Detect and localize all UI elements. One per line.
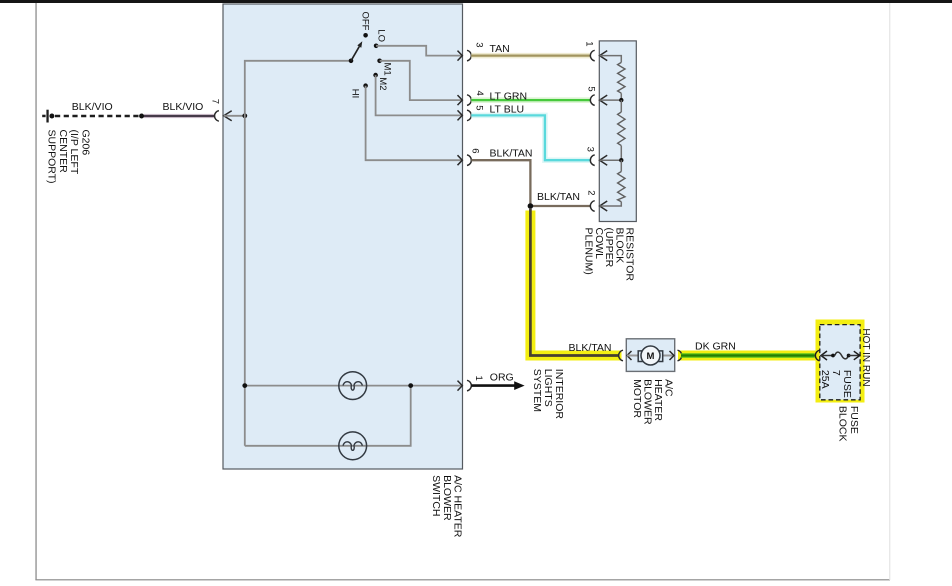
- wire BLK/VIO solid segment: [144, 115, 215, 117]
- resistor internal wire to node 3: [600, 146, 622, 161]
- RESISTOR BLOCK label: [583, 228, 636, 282]
- svg-text:BLK/VIO: BLK/VIO: [72, 101, 113, 113]
- svg-text:DK GRN: DK GRN: [695, 340, 736, 352]
- svg-text:TAN: TAN: [490, 43, 510, 55]
- wire DK GRN halo: [681, 353, 815, 358]
- wire BLK/TAN down to motor (highlighted): [530, 209, 619, 356]
- lamp wire row 2: [245, 386, 411, 446]
- wire LO contact to pin 3: [376, 46, 462, 56]
- resistor block pin 1 arrow: [600, 51, 608, 61]
- wire BLK/TAN to resistor pin 2: [530, 205, 590, 207]
- HI contact dot: [363, 83, 368, 88]
- switch pin 6 arc: [467, 155, 471, 166]
- resistor pin label 3: [585, 147, 596, 152]
- resistor block pin 1 arc: [590, 50, 594, 61]
- resistor pin label 2: [586, 190, 597, 195]
- resistor internal wire node5 to R2: [620, 100, 622, 112]
- frame bottom line: [35, 579, 890, 580]
- svg-text:HI: HI: [350, 89, 361, 99]
- HOT IN RUN label: [860, 328, 871, 386]
- svg-text:HOT IN RUN: HOT IN RUN: [860, 328, 871, 386]
- label M2: [377, 77, 388, 90]
- motor internal stub left: [627, 355, 638, 357]
- switch pin 3 arrow: [458, 51, 463, 61]
- resistor block pin 2 arc: [590, 201, 594, 212]
- wire ORG: [471, 384, 515, 387]
- label OFF: [360, 12, 371, 31]
- FUSE BLOCK label: [837, 406, 861, 442]
- junction dot lamp outputs: [408, 383, 413, 388]
- svg-text:INTERIOR: INTERIOR: [553, 369, 565, 420]
- svg-text:LT GRN: LT GRN: [490, 90, 528, 102]
- label HI: [350, 89, 361, 99]
- wire M1 contact to pin 4: [380, 61, 462, 100]
- svg-text:M2: M2: [377, 77, 388, 90]
- pin label 6: [470, 148, 481, 153]
- svg-text:OFF: OFF: [360, 12, 371, 31]
- resistor node dot 3: [619, 158, 623, 162]
- resistor internal wire to pin 2: [600, 202, 622, 206]
- G206 ground splice symbol: [42, 110, 54, 123]
- wire BLK/TAN from pin 6: [471, 160, 530, 204]
- svg-text:SUPPORT): SUPPORT): [45, 130, 57, 184]
- motor connector arc right: [678, 350, 682, 361]
- wire M2 contact to pin 5: [376, 75, 462, 115]
- connector arc at switch pin 7: [215, 111, 219, 122]
- switch pin 5 arc: [467, 110, 471, 121]
- pin 7 arrow: [224, 111, 232, 121]
- A/C HEATER BLOWER SWITCH label: [430, 475, 464, 538]
- junction dot bus/lamp1: [242, 383, 247, 388]
- svg-text:BLK/TAN: BLK/TAN: [490, 147, 533, 159]
- wire BLK/VIO dashed segment from G206: [55, 115, 139, 117]
- svg-text:SWITCH: SWITCH: [430, 475, 442, 516]
- svg-text:3: 3: [473, 42, 484, 47]
- resistor R3 zigzag: [618, 172, 625, 202]
- switch pin 4 arc: [467, 95, 471, 106]
- pin label 1: [473, 376, 484, 381]
- switch pin 3 arc: [467, 50, 471, 61]
- frame left line: [35, 3, 36, 580]
- G206 (I/P LEFT CENTER SUPPORT) label: [45, 130, 91, 184]
- svg-text:G206: G206: [80, 130, 92, 156]
- wire DK GRN: [681, 354, 815, 356]
- switch pin 5 arrow: [458, 110, 463, 120]
- svg-text:CENTER: CENTER: [57, 130, 69, 174]
- svg-text:MOTOR: MOTOR: [631, 379, 643, 418]
- wire BLK/VIO solid segment halo: [144, 114, 215, 119]
- resistor pin label 5: [586, 86, 597, 91]
- top border bar: [0, 0, 952, 3]
- svg-text:PLENUM): PLENUM): [583, 228, 595, 275]
- resistor block pin 3 arc: [590, 155, 594, 166]
- svg-text:1: 1: [583, 41, 594, 46]
- resistor block body: [599, 41, 636, 222]
- svg-text:6: 6: [470, 148, 481, 153]
- BLK/TAN splice junction dot: [528, 203, 534, 209]
- wire LT BLU: [471, 115, 590, 160]
- INTERIOR LIGHTS SYSTEM label: [531, 369, 565, 420]
- switch pin 4 arrow: [458, 95, 463, 105]
- wire HI contact to pin 6: [366, 86, 462, 161]
- svg-text:M: M: [647, 351, 655, 362]
- resistor block pin 5 arc: [590, 95, 594, 106]
- ORG arrowhead: [514, 381, 524, 390]
- resistor internal wire node3 to R3: [620, 160, 622, 171]
- LO contact dot: [374, 44, 379, 49]
- OFF contact dot: [363, 33, 368, 38]
- wire TAN: [471, 54, 590, 56]
- M1 contact dot: [377, 59, 382, 64]
- wire TAN halo: [471, 53, 590, 59]
- svg-text:M1: M1: [381, 63, 392, 76]
- svg-text:5: 5: [473, 105, 484, 110]
- resistor R1 zigzag: [618, 62, 625, 93]
- bus junction dot: [242, 113, 247, 118]
- resistor block pin 5 arrow: [600, 95, 608, 105]
- fuse pin arrow left: [821, 351, 827, 360]
- wire LT BLU halo: [471, 115, 590, 160]
- motor internal stub right: [663, 355, 674, 357]
- motor block body: [626, 339, 674, 372]
- switch arm pivot dot: [349, 59, 354, 64]
- svg-text:25A: 25A: [819, 370, 831, 389]
- resistor node dot 5: [619, 98, 623, 102]
- fuse wire right: [849, 355, 860, 357]
- fuse block yellow highlight body: [816, 320, 865, 403]
- internal wire pin7 to bus: [224, 115, 246, 117]
- label M1: [381, 63, 392, 76]
- svg-text:ORG: ORG: [490, 372, 514, 384]
- svg-text:(I/P LEFT: (I/P LEFT: [68, 130, 80, 175]
- resistor internal wire to node 5: [600, 93, 622, 100]
- fuse element S-curve: [835, 352, 848, 359]
- pin label 4: [474, 91, 485, 96]
- svg-text:LT BLU: LT BLU: [490, 103, 525, 115]
- svg-text:5: 5: [586, 86, 597, 91]
- yellow highlight on DK GRN wire: [678, 351, 816, 361]
- resistor pin label 1: [583, 41, 594, 46]
- svg-text:LIGHTS: LIGHTS: [542, 369, 554, 407]
- illumination lamp 2: [339, 432, 367, 460]
- switch arm: [351, 47, 359, 61]
- yellow highlight on BLK/TAN wire: [530, 211, 621, 356]
- resistor R2 zigzag: [618, 112, 625, 146]
- switch pin 1 arc: [467, 380, 471, 391]
- splice junction dot on BLK/VIO: [139, 114, 144, 119]
- motor circle M: [641, 346, 660, 365]
- wire LT GRN: [471, 99, 590, 101]
- label LO: [375, 29, 386, 42]
- pin label 7: [210, 99, 221, 104]
- fuse pin arrow right: [854, 351, 860, 360]
- resistor internal wire pin1: [600, 56, 622, 63]
- lamp wire row 1: [245, 385, 462, 387]
- svg-text:BLK/TAN: BLK/TAN: [569, 342, 612, 354]
- switch block body (A/C heater blower switch): [223, 4, 463, 469]
- switch left bus wire: [245, 61, 351, 446]
- resistor block pin 2 arrow: [600, 201, 608, 211]
- motor pin arrow left: [627, 351, 632, 360]
- switch pin 6 arrow: [458, 155, 463, 165]
- switch arm arrowhead: [357, 41, 362, 47]
- illumination lamp 1: [339, 372, 367, 400]
- svg-text:LO: LO: [375, 29, 386, 42]
- svg-text:3: 3: [585, 147, 596, 152]
- motor pin arrow right: [670, 351, 675, 360]
- svg-text:BLK/VIO: BLK/VIO: [163, 101, 204, 113]
- svg-text:1: 1: [473, 376, 484, 381]
- svg-text:2: 2: [586, 190, 597, 195]
- resistor block pin 3 arrow: [600, 155, 608, 165]
- svg-text:7: 7: [210, 99, 221, 104]
- frame right line: [889, 3, 890, 580]
- switch pin 1 arrow: [458, 381, 463, 391]
- A/C HEATER BLOWER MOTOR label: [631, 379, 675, 425]
- FUSE 7 25A label: [819, 370, 853, 398]
- motor body bracket: [638, 351, 663, 362]
- M2 contact dot: [373, 73, 378, 78]
- svg-text:SYSTEM: SYSTEM: [531, 369, 543, 412]
- fuse connector arc left: [815, 350, 819, 361]
- fuse terminal dot right: [847, 354, 851, 358]
- fuse block inner dashed body: [820, 325, 860, 400]
- svg-text:4: 4: [474, 91, 485, 96]
- fuse terminal dot left: [831, 354, 835, 358]
- wire LT GRN halo: [471, 97, 590, 103]
- fuse wire left: [821, 355, 833, 357]
- pin label 5: [473, 105, 484, 110]
- svg-text:FUSE: FUSE: [848, 406, 860, 434]
- svg-text:BLOCK: BLOCK: [837, 406, 849, 442]
- svg-text:BLK/TAN: BLK/TAN: [537, 191, 580, 203]
- pin label 3: [473, 42, 484, 47]
- motor connector arc left: [619, 350, 623, 361]
